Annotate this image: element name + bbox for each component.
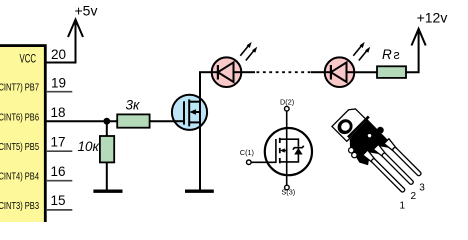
- package bevel marks: [347, 146, 355, 154]
- package pin 2: [373, 144, 386, 157]
- +5v supply arrow: [68, 20, 83, 38]
- pinout terminal S(3): [285, 185, 290, 190]
- VT1 gate wire inside: [174, 120, 185, 122]
- drain-source vertical wire through VT1: [199, 72, 201, 191]
- resistor Rg (ballast): [377, 66, 406, 78]
- wire HL2 to Rg: [354, 71, 377, 73]
- wire pin18 to gate network: [46, 120, 118, 122]
- VT1 drain connection: [189, 101, 200, 103]
- resistor R2 10k (vertical): [100, 136, 114, 162]
- HL2 cathode bar: [330, 65, 332, 80]
- svg-text:R: R: [382, 47, 392, 62]
- svg-text:(PCINT7) PB7: (PCINT7) PB7: [0, 82, 39, 94]
- svg-text:D(2): D(2): [280, 98, 294, 107]
- svg-text:(PCINT4) PB4: (PCINT4) PB4: [0, 171, 39, 183]
- ground (under VT1 source): [185, 189, 214, 192]
- VT1 substrate arrow: [192, 111, 200, 113]
- svg-text:(PCINT5) PB5: (PCINT5) PB5: [0, 141, 39, 153]
- +12v supply arrow: [412, 29, 426, 46]
- pinout terminal G(1): [247, 160, 252, 165]
- HL1 light arrow a: [240, 45, 249, 56]
- svg-text:+12v: +12v: [417, 9, 448, 25]
- pinout symbol: transistor body circle: [265, 128, 312, 175]
- HL1 cathode bar: [217, 65, 219, 80]
- pinout gate wire: [251, 161, 276, 163]
- wire 3k to MOSFET gate: [150, 120, 175, 122]
- HL1 wire left segment: [212, 71, 218, 73]
- svg-text:1: 1: [400, 201, 406, 212]
- pinout source connect: [280, 161, 287, 163]
- svg-text:S(3): S(3): [281, 188, 295, 197]
- HL1 light arrow b: [246, 49, 255, 60]
- wire VT1 drain to LED1: [199, 71, 212, 73]
- pinout gate bar: [275, 139, 277, 163]
- HL2 wire right segment: [347, 71, 355, 73]
- svg-text:C(1): C(1): [240, 148, 254, 157]
- svg-text:(PCINT6) PB6: (PCINT6) PB6: [0, 112, 39, 124]
- TO-220 package drawing: [327, 102, 426, 201]
- wire Rg to +12v: [406, 30, 419, 72]
- svg-text:20: 20: [51, 47, 66, 62]
- HL2 light arrow a: [353, 45, 362, 56]
- wire junction down to 10k: [106, 121, 108, 136]
- svg-text:15: 15: [51, 193, 66, 208]
- wire pin20 to +5v: [46, 21, 76, 63]
- wire 10k to ground: [106, 162, 108, 191]
- pinout body diode triangle: [294, 148, 302, 155]
- svg-text:3к: 3к: [126, 98, 141, 113]
- HL2 triangle: [331, 62, 347, 82]
- pinout channel segments: [279, 138, 281, 143]
- svg-text:16: 16: [51, 164, 66, 179]
- wire pin17 stub: [46, 150, 72, 152]
- pinout terminal D(2): [285, 106, 290, 111]
- package body: [342, 119, 393, 170]
- resistor R1 3k (horizontal): [117, 114, 149, 127]
- wire pin16 stub: [46, 180, 72, 182]
- svg-text:10к: 10к: [78, 139, 100, 154]
- VT1 source connection: [189, 121, 200, 123]
- package white dot: [367, 133, 372, 138]
- svg-text:2: 2: [411, 191, 417, 202]
- transistor VT1 MOSFET (circle body): [172, 95, 207, 130]
- VT1 gate bar: [183, 101, 185, 124]
- svg-text:+5v: +5v: [75, 2, 98, 18]
- svg-text:3: 3: [419, 183, 425, 194]
- pinout substrate arrow: [282, 150, 287, 152]
- HL2 light arrow b: [359, 49, 368, 60]
- wire pin19 stub: [46, 91, 72, 93]
- wire pin15 stub: [46, 209, 72, 211]
- package tab edge band: [347, 116, 370, 139]
- HL1 wire right segment: [234, 71, 242, 73]
- package mounting hole: [335, 116, 356, 137]
- svg-text:19: 19: [51, 75, 66, 90]
- dashed wire between LEDs: [241, 71, 255, 73]
- package body corner bump: [376, 125, 386, 135]
- LED HL1 (circle): [212, 57, 242, 87]
- package pin 3: [384, 139, 397, 152]
- pinout body diode branch: [287, 139, 299, 147]
- pinout drain connect: [280, 138, 287, 140]
- pinout drain-source vertical line: [286, 111, 288, 185]
- svg-text:VCC: VCC: [20, 51, 37, 65]
- svg-text:18: 18: [51, 105, 66, 120]
- svg-text:17: 17: [51, 135, 66, 150]
- package tab plate: [332, 106, 367, 141]
- package pin 1: [363, 150, 376, 163]
- HL1 triangle: [218, 62, 234, 82]
- svg-text:s: s: [394, 48, 400, 62]
- junction node at pin18 wire: [103, 118, 110, 125]
- pinout body diode cathode bar: [293, 146, 304, 150]
- IC DD1 (microcontroller, yellow body): [0, 46, 45, 231]
- VT1 channel bar: [188, 99, 190, 126]
- ground (under 10k): [93, 189, 122, 192]
- LED HL2 (circle): [325, 57, 355, 87]
- HL2 wire left segment: [325, 71, 331, 73]
- svg-text:(PCINT3) PB3: (PCINT3) PB3: [0, 200, 39, 212]
